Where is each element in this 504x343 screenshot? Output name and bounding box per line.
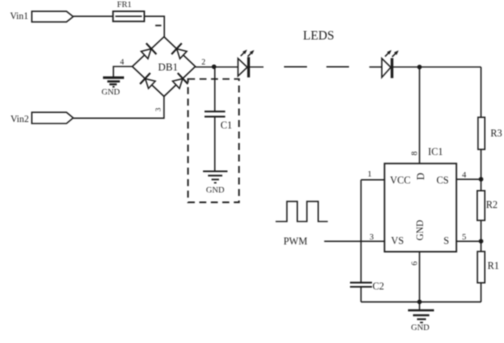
- svg-text:GND: GND: [416, 220, 426, 241]
- svg-text:VS: VS: [391, 236, 404, 247]
- diode D-lower-right: [171, 73, 188, 90]
- connector Vin1: [32, 11, 73, 22]
- wire VCC branch down to C2: [360, 180, 362, 283]
- svg-text:3: 3: [370, 232, 374, 242]
- pin 6 wire: [419, 252, 421, 310]
- ground (C1): [203, 171, 228, 183]
- wire bridge left to ground: [113, 67, 132, 78]
- pin 3 wire from PWM: [324, 240, 384, 242]
- junction pin6/bottom rail: [417, 300, 422, 305]
- svg-text:GND: GND: [206, 185, 224, 195]
- dashed box: [188, 79, 239, 202]
- bottom rail wire: [361, 301, 481, 303]
- pin 1 wire: [361, 179, 385, 181]
- ground (bridge): [103, 78, 124, 87]
- minus label: [155, 25, 161, 27]
- diode D-lower-left: [140, 73, 157, 90]
- junction pin5/R2/R1: [479, 239, 484, 244]
- resistor R3: [478, 117, 485, 149]
- fuse FR1: [113, 11, 144, 21]
- svg-text:R2: R2: [486, 200, 498, 211]
- svg-text:D: D: [416, 173, 427, 180]
- pin 5 wire: [456, 240, 481, 242]
- svg-text:IC1: IC1: [428, 147, 443, 158]
- svg-text:8: 8: [409, 151, 419, 155]
- wire down right column: [480, 67, 482, 302]
- junction at pin8 column: [417, 65, 422, 70]
- LED LED1: [238, 48, 256, 77]
- svg-text:6: 6: [409, 261, 419, 265]
- LED LED2: [382, 49, 400, 78]
- svg-text:DB1: DB1: [158, 63, 178, 74]
- svg-text:2: 2: [202, 58, 206, 67]
- wire FR1 to bridge top: [144, 16, 164, 37]
- junction pin4/R3/R2: [479, 177, 484, 182]
- diode D-upper-left: [139, 43, 156, 60]
- resistor R2: [477, 191, 485, 221]
- svg-text:R3: R3: [491, 129, 503, 140]
- svg-text:Vin1: Vin1: [10, 12, 29, 22]
- diode D-upper-right: [172, 43, 189, 60]
- svg-text:C2: C2: [373, 282, 385, 293]
- svg-text:3: 3: [154, 108, 163, 112]
- ground (IC): [408, 310, 434, 322]
- svg-text:FR1: FR1: [117, 0, 132, 9]
- wire C2 to bottom rail: [360, 287, 362, 302]
- wire LED2 to right corner: [392, 66, 481, 68]
- bridge DB1 body: [132, 37, 195, 97]
- node 2 junction: [212, 65, 217, 70]
- pin 4 wire: [456, 178, 481, 180]
- PWM pulse waveform: [276, 201, 328, 221]
- connector Vin2: [32, 112, 73, 123]
- wire dash segment 1: [284, 66, 307, 68]
- svg-text:5: 5: [462, 232, 466, 242]
- resistor R1: [477, 252, 484, 283]
- wire node2 down to C1: [214, 67, 216, 111]
- IC1 box: [385, 164, 457, 252]
- svg-text:Vin2: Vin2: [11, 115, 30, 125]
- capacitor C1: [205, 112, 226, 117]
- capacitor C2: [350, 283, 372, 287]
- svg-text:1: 1: [368, 169, 372, 179]
- svg-text:4: 4: [120, 58, 124, 67]
- svg-text:GND: GND: [411, 322, 429, 332]
- wire dash segment 2: [326, 66, 349, 68]
- wire C1 to ground: [214, 117, 216, 171]
- svg-text:VCC: VCC: [390, 176, 411, 187]
- svg-text:R1: R1: [488, 261, 500, 272]
- svg-text:GND: GND: [102, 87, 120, 97]
- svg-text:LEDS: LEDS: [303, 29, 334, 43]
- wire into LED2: [369, 66, 382, 68]
- wire node2 top rail to LED1: [195, 66, 263, 68]
- svg-text:C1: C1: [221, 121, 233, 132]
- wire Vin1 to FR1: [73, 15, 113, 17]
- wire bridge bottom to Vin2: [73, 96, 164, 118]
- svg-text:S: S: [444, 236, 450, 247]
- wire pin8: [419, 67, 421, 164]
- svg-text:PWM: PWM: [284, 237, 308, 248]
- svg-text:4: 4: [462, 170, 467, 180]
- svg-text:CS: CS: [437, 176, 449, 187]
